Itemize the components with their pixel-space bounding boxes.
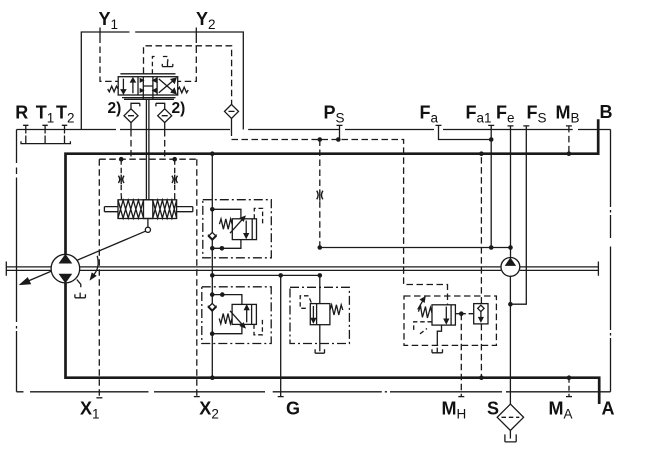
node MB on B line xyxy=(567,151,572,156)
port Y2 tick xyxy=(195,28,197,37)
relief valve V4 body xyxy=(432,305,455,325)
dashed wire to orifice Z3 xyxy=(174,159,176,174)
node V2 bottom xyxy=(210,331,215,336)
wire Fa xyxy=(436,125,492,139)
thick pressure line B xyxy=(66,119,599,254)
pump P1 circle xyxy=(51,254,80,283)
node bus G xyxy=(278,273,283,278)
dashed wire to orifice Z1 xyxy=(319,140,321,190)
check valve C1 bottom wire xyxy=(130,123,132,130)
svg-text:X1: X1 xyxy=(80,399,100,422)
valve V4 spring xyxy=(418,306,432,318)
housing boundary right edge xyxy=(610,130,612,392)
wire FS xyxy=(510,126,529,304)
feedback lever link wire xyxy=(147,219,149,228)
valve V3 arrow xyxy=(312,306,314,320)
actuator center block xyxy=(144,200,153,219)
pilot control valve U1 body xyxy=(118,77,178,95)
G line wire xyxy=(278,275,284,396)
orifice Z3 xyxy=(172,175,178,184)
node X2 top on B line xyxy=(210,151,215,156)
pump case drain elbow xyxy=(77,280,81,288)
node MH junction xyxy=(459,311,464,316)
mechanical feedback double wire xyxy=(146,99,149,200)
check valve C3 xyxy=(225,104,239,118)
valve block V3 dash-dot box xyxy=(290,287,349,343)
node orifice branch junction xyxy=(318,137,323,142)
orifice Z2 xyxy=(118,175,124,184)
svg-text:T1: T1 xyxy=(36,102,55,125)
wire into valve V3 xyxy=(319,275,321,303)
valve V2 spring xyxy=(219,314,232,324)
valve block V2 dash-dot box xyxy=(202,287,271,344)
thick pressure line A xyxy=(66,283,600,404)
drive shaft end bars xyxy=(6,262,598,276)
wire V5 bottom dashed to A line xyxy=(480,324,482,378)
housing boundary bottom edge xyxy=(17,391,611,393)
svg-text:T2: T2 xyxy=(56,102,75,125)
svg-text:R: R xyxy=(15,102,28,122)
node FS junction xyxy=(508,302,513,307)
node Ps junction xyxy=(336,137,341,142)
node V5 on A line xyxy=(479,375,484,380)
drain E mark V4 xyxy=(432,348,443,353)
valve V2 adjust arrow xyxy=(230,311,242,325)
actuator dashed box left edge / X1 wire xyxy=(98,159,100,398)
check valve C2 dashed wire down xyxy=(164,130,166,159)
dashed wire below orifice Z2 xyxy=(120,185,122,196)
valve V4 pilot dashes xyxy=(414,322,432,334)
svg-text:FS: FS xyxy=(527,102,547,125)
valve V1 arrow xyxy=(245,221,247,235)
node bus Z xyxy=(318,273,323,278)
charge bus wire xyxy=(212,274,319,276)
wire MH port dashed xyxy=(460,314,462,397)
svg-text:2): 2) xyxy=(108,100,122,117)
svg-text:Fe: Fe xyxy=(496,102,515,125)
port Y1 tick xyxy=(99,28,101,37)
check valve V2 seat diamond xyxy=(208,303,216,311)
dashed wire below orifice Z1 xyxy=(319,201,321,247)
valve V3 pilot dashes xyxy=(300,296,311,309)
svg-text:2): 2) xyxy=(172,100,186,117)
dashed wire below orifice Z3 xyxy=(174,185,176,196)
node left orifice junction xyxy=(119,157,124,162)
wire V2 bottom branch xyxy=(212,324,242,333)
port X1 cap xyxy=(96,397,102,399)
dashed wire to orifice Z2 xyxy=(120,159,122,174)
tank symbol under filter xyxy=(505,434,516,442)
svg-text:Y2: Y2 xyxy=(196,9,216,32)
check valve C1 dashed wire down xyxy=(130,130,132,159)
check valve V1 seat diamond xyxy=(208,232,216,240)
valve V1 adjust arrow xyxy=(230,219,242,233)
pilot-valve solid enclosure xyxy=(81,32,243,130)
wire V5 top dashed to B line xyxy=(480,154,482,304)
node MA on A line xyxy=(567,375,572,380)
relief valve V2 body xyxy=(232,304,256,324)
pump P1 flow triangles xyxy=(60,255,71,263)
dashed wire to check V5 xyxy=(461,313,473,315)
wire Fa1 xyxy=(488,125,494,247)
check valve C1 top elbow wire xyxy=(131,103,140,109)
wire V4 drain xyxy=(437,325,441,346)
stub into actuator right xyxy=(174,196,176,200)
wire MB dashed xyxy=(566,126,572,154)
relief valve V1 body xyxy=(232,219,256,240)
node V5 on B line xyxy=(479,151,484,156)
boost pump P2 xyxy=(501,258,520,277)
svg-text:X2: X2 xyxy=(199,399,219,422)
check valve C2 bottom wire xyxy=(164,123,166,130)
valve V1 pilot dashes xyxy=(254,208,262,224)
valve V5 diamond xyxy=(478,305,484,311)
valve U1 left spring xyxy=(108,86,119,92)
suction filter F1 xyxy=(497,404,523,430)
actuator left spring xyxy=(118,200,144,218)
housing boundary top edge xyxy=(17,129,611,131)
check valve C2 xyxy=(158,109,172,123)
svg-text:PS: PS xyxy=(324,102,345,125)
svg-text:B: B xyxy=(600,102,613,122)
actuator right spring xyxy=(153,200,177,218)
tank bus wire R-T1-T2 xyxy=(21,141,70,143)
pilot pressure dashed wire Ps xyxy=(232,130,448,305)
valve V1 spring xyxy=(219,219,232,229)
valve U1 center cell symbols xyxy=(143,77,153,100)
wire V2 top branch xyxy=(212,295,242,305)
node V1 bottom b xyxy=(220,246,225,251)
node V1 top xyxy=(210,207,215,212)
port Ps tick xyxy=(337,125,343,139)
actuator dashed box top edge xyxy=(99,158,197,160)
wire Y2 pilot (dashed) xyxy=(178,37,197,82)
valve V2 arrow xyxy=(246,308,248,322)
valve V4 adjust arrow xyxy=(418,300,424,310)
drive shaft lines xyxy=(6,267,598,271)
node X2 bottom on A line xyxy=(210,375,215,380)
wire MA dashed xyxy=(568,378,570,397)
valve block V4 dashed box xyxy=(404,296,496,345)
port T2 tick xyxy=(62,125,67,143)
pressure valve V3 body xyxy=(310,304,330,325)
node V2 top a xyxy=(210,292,215,297)
actuator dashed box right edge / X2 wire xyxy=(196,159,198,396)
filter tank wire xyxy=(509,431,511,439)
wire Y1 pilot (dashed) xyxy=(100,37,118,82)
wire V1 bottom branch xyxy=(212,240,241,249)
X2 line main vertical wire xyxy=(211,154,213,378)
check-orifice valve V5 body xyxy=(474,304,488,324)
wire V3 drain xyxy=(319,325,321,352)
valve U1 right spring xyxy=(178,87,188,93)
svg-text:MH: MH xyxy=(442,399,467,422)
valve V2 pilot dashes xyxy=(254,319,262,335)
pump case drain E mark xyxy=(75,293,86,298)
pilot supply dashed wire to valve P xyxy=(144,46,232,105)
node Fa-Fa1 junction xyxy=(489,137,494,142)
svg-text:MA: MA xyxy=(549,399,573,422)
housing boundary left edge xyxy=(16,130,18,392)
tank symbol V3 xyxy=(315,349,324,353)
svg-text:Fa1: Fa1 xyxy=(466,102,492,125)
check valve C1 xyxy=(124,109,138,123)
wire V4 outlet xyxy=(455,313,461,315)
valve V3 spring xyxy=(330,305,343,315)
feedback lever pivot xyxy=(145,227,150,232)
valve V4 arrow xyxy=(445,307,447,321)
feedback lever to pump xyxy=(27,231,146,281)
boost feed wire xyxy=(320,247,511,249)
actuator right rod xyxy=(177,207,193,212)
node V1 bottom a xyxy=(210,246,215,251)
stub into actuator left xyxy=(120,196,122,200)
valve V5 arrow xyxy=(480,312,482,319)
suction wire S xyxy=(509,276,511,404)
valve U1 right cell crossed arrows xyxy=(159,79,174,93)
node boost feed left xyxy=(318,245,323,250)
valve block V1 dash-dot box xyxy=(203,200,271,258)
svg-text:G: G xyxy=(286,399,300,419)
pilot drain tank symbol xyxy=(162,61,173,66)
node right orifice junction xyxy=(172,157,177,162)
port T1 tick xyxy=(42,125,47,143)
node bus X2 xyxy=(210,273,215,278)
node V2 top b xyxy=(220,292,225,297)
node Fa1 bottom xyxy=(489,245,494,250)
check valve C2 top elbow wire xyxy=(156,103,165,109)
stroking actuator body xyxy=(118,200,177,219)
svg-text:A: A xyxy=(602,399,615,419)
svg-text:Y1: Y1 xyxy=(99,9,119,32)
port R tick xyxy=(23,125,28,143)
valve U1 left cell arrows xyxy=(123,79,132,94)
port X2 cap xyxy=(194,396,200,398)
wire V1 top branch xyxy=(212,209,241,219)
valve U1 rails xyxy=(120,74,175,100)
svg-text:S: S xyxy=(487,399,499,419)
check valve C3 bottom wire xyxy=(231,118,233,129)
orifice Z1 xyxy=(317,189,323,200)
svg-text:Fa: Fa xyxy=(420,102,439,125)
pilot drain dashed wires xyxy=(152,57,167,74)
svg-text:MB: MB xyxy=(556,102,580,125)
node boost outlet xyxy=(508,245,513,250)
swivel angle arc xyxy=(92,256,98,276)
actuator left rod xyxy=(104,207,118,212)
wire Fe xyxy=(508,126,514,258)
